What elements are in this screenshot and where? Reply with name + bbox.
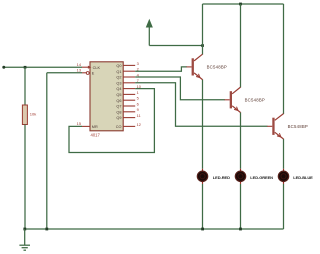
- pin 3 Q0 of U1: [116, 61, 138, 68]
- op IC U1 4017 body: [90, 62, 123, 131]
- power symbol VCC arrow: [146, 20, 152, 46]
- svg-text:Q8: Q8: [116, 110, 121, 114]
- LED D1 LED-RED: [197, 169, 230, 184]
- wire: column 3 top rail to T3 collector: [283, 4, 285, 114]
- svg-text:10k: 10k: [30, 112, 36, 117]
- junction: VCC wire / column 1: [201, 44, 204, 47]
- junction: ground rail / LED-GREEN column: [239, 228, 242, 231]
- transistor Q1 BC548BP: [186, 54, 227, 79]
- svg-text:Q2: Q2: [116, 76, 121, 80]
- svg-text:BC548BP: BC548BP: [288, 124, 308, 129]
- wire: U1 Q1 pin 2 to transistor Q1 base: [135, 67, 187, 71]
- wire: column 1 T1 emitter to LED-RED anode: [202, 79, 204, 168]
- wire: column 1 top rail to T1 collector: [202, 4, 204, 55]
- junction: top rail / T2 collector column: [239, 3, 242, 6]
- svg-text:BC548BP: BC548BP: [245, 97, 265, 102]
- wire: clock input net to U1 CLK pin 14: [4, 66, 82, 68]
- svg-text:Q5: Q5: [116, 93, 121, 97]
- svg-text:15: 15: [77, 121, 81, 126]
- wire: bottom ground rail: [25, 228, 284, 230]
- wire: U1 Q3 pin 7 to transistor Q3 base: [135, 83, 267, 127]
- svg-text:Q3: Q3: [116, 81, 121, 85]
- wire: U1 Q4 pin 10 to MR pin 15 reset loop: [69, 89, 154, 153]
- svg-text:1: 1: [137, 90, 139, 95]
- svg-text:13: 13: [77, 68, 81, 73]
- svg-text:LED-BLUE: LED-BLUE: [293, 175, 313, 180]
- pin 1 Q5 of U1: [116, 90, 138, 97]
- LED D3 LED-BLUE: [278, 169, 313, 184]
- svg-text:3: 3: [137, 61, 139, 66]
- svg-text:CLK: CLK: [93, 66, 101, 70]
- svg-text:12: 12: [137, 122, 141, 127]
- svg-text:4017: 4017: [91, 133, 101, 138]
- LED D2 LED-GREEN: [235, 169, 273, 184]
- svg-text:Q7: Q7: [116, 105, 121, 109]
- svg-text:Q6: Q6: [116, 99, 121, 103]
- svg-text:BC548BP: BC548BP: [207, 64, 227, 69]
- wire: column 2 top rail to T2 collector: [240, 4, 242, 88]
- pin 13 E of U1 with inversion bubble: [77, 68, 95, 76]
- ground symbol: [19, 229, 30, 250]
- svg-text:Q9: Q9: [116, 116, 121, 120]
- pin 6 Q7 of U1: [116, 101, 138, 108]
- pin 5 Q6 of U1: [116, 96, 138, 103]
- svg-text:MR: MR: [92, 125, 98, 129]
- svg-text:5: 5: [137, 96, 139, 101]
- transistor Q2 BC548BP: [225, 87, 266, 112]
- wire: R1 top lead up to clock net: [24, 67, 26, 105]
- wire: VCC arrow to T1 collector column: [149, 45, 202, 47]
- wire: column 2 T2 emitter to LED-GREEN anode: [240, 112, 242, 169]
- pin 2 Q1 of U1: [116, 67, 138, 74]
- svg-text:14: 14: [77, 62, 82, 67]
- node: clock wire left end dot: [2, 66, 5, 69]
- pin 11 Q9 of U1: [116, 113, 140, 120]
- svg-text:CO: CO: [116, 125, 122, 129]
- svg-text:Q0: Q0: [116, 64, 121, 68]
- svg-text:Q1: Q1: [116, 70, 121, 74]
- junction: ground rail / E pin net: [45, 228, 48, 231]
- junction: ground rail / R1 branch: [23, 228, 26, 231]
- wire: column 3 T3 emitter to LED-BLUE anode: [283, 139, 285, 169]
- pin 9 Q8 of U1: [116, 107, 138, 114]
- wire: top VCC rail: [203, 3, 284, 5]
- junction: ground rail / LED-RED column: [201, 228, 204, 231]
- pin 4 Q2 of U1: [116, 72, 139, 79]
- pin 15 MR of U1: [77, 121, 98, 129]
- svg-text:E: E: [92, 71, 95, 75]
- svg-text:Q4: Q4: [116, 87, 121, 91]
- junction: clock wire / resistor R1 branch: [24, 66, 27, 69]
- pin 12 CO of U1: [116, 122, 141, 129]
- wire: R1 bottom lead down to ground rail: [24, 125, 26, 230]
- wire: U1 Q2 pin 4 to transistor Q2 base: [135, 77, 225, 100]
- svg-text:6: 6: [137, 101, 139, 106]
- transistor Q3 BC548BP: [267, 114, 308, 139]
- pin 7 Q3 of U1: [116, 78, 138, 85]
- svg-text:11: 11: [137, 113, 141, 118]
- wire: U1 E pin 13 net down to ground rail: [47, 73, 82, 229]
- resistor R1 body: [22, 105, 27, 125]
- wire: column 1 LED-RED cathode to ground rail: [202, 184, 204, 229]
- svg-text:LED-GREEN: LED-GREEN: [250, 175, 273, 180]
- pin 10 Q4 of U1: [116, 84, 141, 91]
- svg-text:9: 9: [137, 107, 139, 112]
- svg-text:LED-RED: LED-RED: [213, 175, 230, 180]
- wire: column 3 LED-BLUE cathode to ground rail: [283, 184, 285, 229]
- wire: column 2 LED-GREEN cathode to ground rail: [240, 184, 242, 229]
- pin 14 CLK of U1: [77, 62, 101, 70]
